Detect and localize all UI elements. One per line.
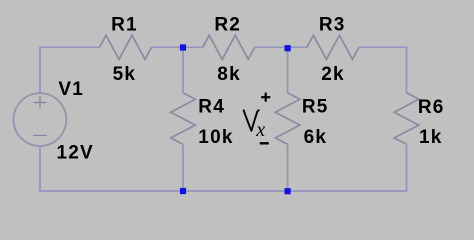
node junction (R4 bottom) <box>180 188 186 194</box>
svg-text:5k: 5k <box>113 64 137 85</box>
voltage source V1 circle <box>14 93 67 146</box>
svg-text:1k: 1k <box>419 127 443 148</box>
svg-text:8k: 8k <box>217 64 241 85</box>
svg-text:R4: R4 <box>198 97 225 118</box>
svg-text:x: x <box>255 119 265 141</box>
wire <box>152 46 203 48</box>
resistor R3 <box>307 35 359 59</box>
wire <box>287 48 289 93</box>
node voltage label Vx <box>244 110 259 131</box>
svg-text:V1: V1 <box>58 79 84 100</box>
wire <box>287 144 289 191</box>
node junction (R2-R3 / R5 top) <box>285 45 291 51</box>
svg-text:R3: R3 <box>319 15 346 36</box>
resistor R2 <box>203 35 255 59</box>
wire <box>182 47 184 93</box>
node voltage label Vx plus sign <box>261 93 270 102</box>
resistor R5 <box>275 93 300 145</box>
resistor R4 <box>171 93 196 145</box>
node voltage label Vx minus sign <box>260 142 269 144</box>
wire <box>40 144 407 191</box>
wire <box>182 144 184 191</box>
V1 plus terminal mark <box>34 96 47 109</box>
svg-text:2k: 2k <box>321 64 345 85</box>
svg-text:12V: 12V <box>57 143 94 164</box>
svg-text:R2: R2 <box>214 15 241 36</box>
resistor R1 <box>100 35 152 59</box>
svg-text:R1: R1 <box>111 15 138 36</box>
svg-text:10k: 10k <box>198 127 233 148</box>
resistor R6 <box>394 93 419 145</box>
svg-text:R6: R6 <box>418 97 445 118</box>
svg-text:6k: 6k <box>304 127 328 148</box>
wire <box>359 47 407 93</box>
wire <box>40 47 100 93</box>
V1 minus terminal mark <box>34 134 47 136</box>
svg-text:R5: R5 <box>302 97 329 118</box>
wire <box>255 46 307 48</box>
node junction (R5 bottom) <box>285 188 291 194</box>
node junction (R1-R2 / R4 top) <box>180 44 186 50</box>
